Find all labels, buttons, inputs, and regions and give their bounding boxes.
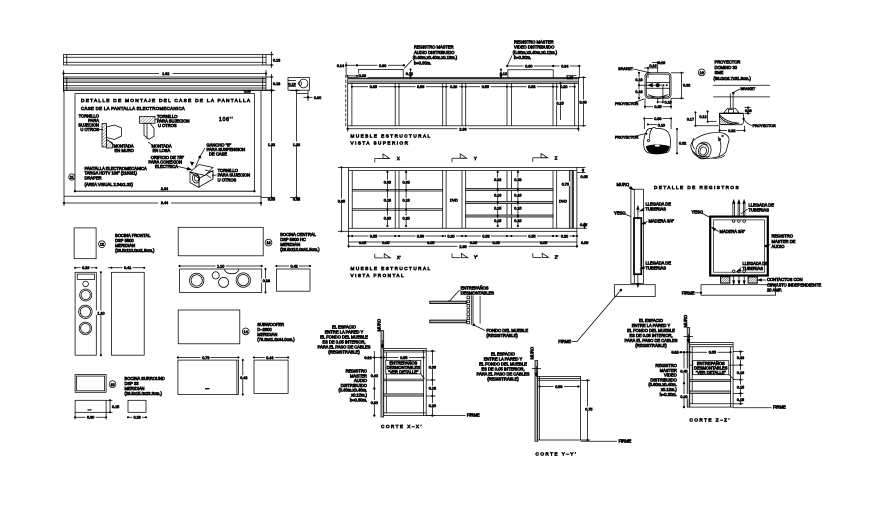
svg-text:0.15: 0.15 — [112, 405, 119, 409]
firme base right — [701, 285, 776, 296]
svg-text:0.55: 0.55 — [482, 85, 489, 89]
svg-text:0.23: 0.23 — [494, 178, 501, 182]
bocina frontal text — [115, 233, 155, 253]
dim 0.79 — [177, 355, 239, 360]
bottom chain 0.05 row — [349, 241, 589, 245]
svg-text:0.17: 0.17 — [687, 118, 694, 122]
svg-text:BRAKET: BRAKET — [741, 87, 757, 91]
projector perspective sketch — [691, 132, 729, 160]
svg-text:0.20: 0.20 — [403, 216, 410, 220]
svg-text:0.15: 0.15 — [494, 206, 501, 210]
madera box in wall — [634, 206, 641, 287]
svg-text:0.32: 0.32 — [683, 84, 690, 88]
svg-text:MASTER DE: MASTER DE — [772, 239, 796, 244]
svg-text:AUDIO DISTRIBUIDO: AUDIO DISTRIBUIDO — [414, 50, 455, 55]
label firme right — [682, 290, 702, 295]
svg-text:0.10: 0.10 — [658, 123, 665, 127]
svg-text:(REGISTRABLE): (REGISTRABLE) — [487, 377, 519, 382]
muro wall strip — [631, 189, 644, 283]
SECTION I : corte Y-Y' — [477, 347, 632, 457]
svg-text:X: X — [397, 156, 400, 161]
svg-text:h=0.30m.: h=0.30m. — [414, 60, 431, 65]
svg-text:h=0.30m.: h=0.30m. — [514, 55, 531, 60]
svg-text:0.58: 0.58 — [528, 85, 535, 89]
svg-text:0.23: 0.23 — [737, 356, 744, 360]
svg-text:FIRME: FIRME — [773, 405, 786, 410]
ceiling line 1 — [713, 84, 770, 86]
bocina central front view — [180, 269, 262, 292]
svg-text:0.15: 0.15 — [737, 385, 744, 389]
svg-text:106’’: 106’’ — [219, 117, 233, 123]
top dim 0.60 / 0.34 right — [500, 64, 580, 80]
svg-text:0.05: 0.05 — [540, 241, 547, 245]
svg-text:0.56: 0.56 — [555, 385, 562, 389]
subwoofer text — [257, 322, 295, 342]
SECTION F : speakers — [74, 227, 320, 419]
divider left wall — [351, 83, 353, 125]
dim 0.85 left — [337, 167, 349, 232]
label orificio — [148, 155, 191, 170]
top dim 0.14 / 0.60 left — [337, 62, 413, 78]
dim 1.32 right — [290, 90, 302, 202]
svg-text:0.44: 0.44 — [266, 356, 273, 360]
label yeso right — [692, 210, 711, 218]
circle 16 — [698, 69, 705, 76]
svg-text:MURO: MURO — [617, 182, 630, 187]
svg-text:0.79: 0.79 — [202, 356, 209, 360]
svg-text:0.18: 0.18 — [429, 387, 436, 391]
divider 5 — [553, 83, 557, 125]
svg-text:0.18: 0.18 — [403, 199, 410, 203]
svg-text:0.33: 0.33 — [403, 181, 410, 185]
svg-text:0.05: 0.05 — [581, 175, 588, 179]
svg-text:0.75: 0.75 — [585, 407, 592, 411]
label gancho S — [195, 143, 245, 168]
svg-text:MUEBLE ESTRUCTURAL: MUEBLE ESTRUCTURAL — [351, 266, 432, 271]
cabinet section Y — [538, 376, 581, 440]
svg-text:EN LOSA: EN LOSA — [153, 148, 171, 153]
svg-text:0.15: 0.15 — [514, 206, 521, 210]
bocina central top rect — [178, 227, 263, 256]
divider 3 — [462, 83, 466, 125]
svg-text:1.10: 1.10 — [97, 311, 104, 315]
dashed wall line — [345, 75, 347, 128]
projector top view — [645, 73, 671, 99]
bocina surround text — [125, 376, 165, 396]
label pantalla text — [85, 166, 147, 187]
svg-text:MURO: MURO — [530, 347, 535, 360]
section flag Y' — [452, 254, 478, 260]
top tick Y — [532, 366, 541, 376]
left chain X — [369, 358, 379, 417]
svg-text:“VER DETALLE”: “VER DETALLE” — [696, 370, 727, 375]
SECTION A : screen case detail — [63, 52, 321, 207]
svg-text:0.05: 0.05 — [427, 241, 434, 245]
firme base left — [615, 285, 656, 297]
shelf bar 2 — [430, 320, 467, 323]
svg-text:MADERA 3/4”: MADERA 3/4” — [649, 219, 675, 224]
svg-text:U OTROS: U OTROS — [218, 177, 237, 182]
svg-text:0.23: 0.23 — [514, 178, 521, 182]
shelf bay4-5 2 — [466, 202, 553, 204]
note text X — [318, 325, 371, 355]
muro wall Z — [687, 328, 690, 408]
section flag Z — [533, 153, 558, 161]
section flag Z' — [533, 253, 559, 259]
SECTION G : corte X-X' — [318, 319, 480, 429]
muro wall X — [381, 331, 384, 417]
svg-text:(36.0x16.7x31.8cm.): (36.0x16.7x31.8cm.) — [714, 76, 752, 81]
svg-text:BRAKET: BRAKET — [618, 67, 634, 71]
contact boxes — [721, 277, 758, 283]
svg-text:REGISTRO MASTER: REGISTRO MASTER — [414, 45, 454, 50]
label llegada bottom right — [737, 261, 768, 272]
svg-text:CORTE Y–Y’: CORTE Y–Y’ — [536, 452, 578, 457]
shelf X 1 — [384, 379, 424, 381]
dim chain bay1 — [383, 171, 393, 226]
svg-text:X’: X’ — [397, 255, 401, 260]
shelf Z 2 — [690, 380, 731, 382]
svg-text:PROYECTOR: PROYECTOR — [715, 60, 741, 65]
dim 1.10 central — [179, 264, 262, 269]
bracket top view with circle — [288, 78, 310, 91]
section flag Y — [452, 154, 477, 162]
svg-text:0.26: 0.26 — [82, 266, 89, 270]
svg-text:0.35: 0.35 — [654, 105, 661, 109]
label contactos — [758, 277, 821, 293]
svg-text:AUDIO: AUDIO — [772, 244, 785, 249]
svg-text:16: 16 — [700, 71, 704, 75]
svg-text:0.85: 0.85 — [338, 199, 345, 203]
hook 3d case sketch — [190, 162, 213, 188]
fondo boards — [471, 295, 480, 325]
svg-text:(0.60m.x0.40m.x0.12m.): (0.60m.x0.40m.x0.12m.) — [513, 50, 558, 55]
dim 1.62 — [63, 70, 267, 92]
svg-text:13: 13 — [266, 241, 270, 245]
label tornillo 1 — [78, 114, 99, 133]
section flag X' — [375, 254, 401, 260]
svg-text:DETALLE DE MONTAJE DEL CASE DE: DETALLE DE MONTAJE DEL CASE DE LA PANTAL… — [81, 98, 251, 104]
dim 0.56 Y — [539, 384, 580, 389]
svg-text:FIRME: FIRME — [467, 413, 480, 418]
svg-text:TUBERIAS: TUBERIAS — [646, 206, 667, 211]
registro master audio note — [404, 45, 458, 69]
svg-text:EN MURO: EN MURO — [115, 148, 134, 153]
svg-text:0.42: 0.42 — [240, 376, 247, 380]
dim 0.12 Z — [671, 351, 688, 355]
svg-text:0.56: 0.56 — [417, 235, 424, 239]
svg-text:DETALLE DE REGISTROS: DETALLE DE REGISTROS — [654, 185, 740, 190]
svg-text:YESO: YESO — [614, 211, 625, 216]
label proyector side — [743, 118, 776, 128]
shelf Z 1 line — [690, 364, 733, 366]
dim 0.42 sub — [239, 359, 249, 395]
svg-text:CORTE X–X’: CORTE X–X’ — [381, 424, 423, 429]
dim 1.32 left — [261, 90, 277, 202]
svg-text:FIRME: FIRME — [682, 290, 695, 295]
right chain X — [426, 350, 437, 416]
label tornillo 3 — [212, 168, 250, 183]
cabinet top-view body — [348, 77, 579, 125]
svg-text:ELECTRICA: ELECTRICA — [155, 164, 178, 169]
muro wall Y — [535, 361, 538, 442]
svg-text:0.20: 0.20 — [560, 85, 567, 89]
svg-text:0.38: 0.38 — [293, 197, 300, 201]
svg-text:0.13: 0.13 — [273, 59, 280, 63]
registro master video text Z — [648, 363, 677, 397]
svg-text:0.42: 0.42 — [291, 264, 298, 268]
svg-text:U OTROS: U OTROS — [80, 127, 99, 132]
interior dim row — [351, 84, 575, 89]
dim 0.16+ top — [644, 61, 665, 78]
svg-text:0.16: 0.16 — [658, 61, 665, 65]
SECTION C : mueble estructural vista frontal — [337, 153, 589, 278]
title vista frontal — [351, 266, 432, 278]
svg-text:h=0.30m.: h=0.30m. — [350, 397, 367, 402]
svg-text:0.60: 0.60 — [580, 101, 587, 105]
svg-text:0.20: 0.20 — [450, 85, 457, 89]
dim 1.10 — [96, 272, 106, 356]
label proyector top view — [615, 99, 644, 106]
bocina central side view — [276, 264, 311, 292]
svg-text:0.05: 0.05 — [244, 89, 251, 93]
circle 15 — [109, 381, 116, 388]
svg-text:0.34: 0.34 — [561, 65, 568, 69]
shelf Z 3 — [690, 391, 731, 393]
svg-text:0.32: 0.32 — [679, 142, 686, 146]
svg-text:CASE DE LA PANTALLA ELECTROMEC: CASE DE LA PANTALLA ELECTROMECANICA — [81, 106, 185, 111]
svg-text:0.16: 0.16 — [494, 193, 501, 197]
svg-text:MURO: MURO — [683, 315, 688, 328]
svg-text:0.60: 0.60 — [379, 64, 386, 68]
svg-text:0.05: 0.05 — [567, 76, 574, 80]
svg-text:2.96: 2.96 — [459, 127, 466, 131]
svg-text:0.55: 0.55 — [709, 351, 716, 355]
shelf X 2 — [384, 394, 424, 396]
svg-text:SME: SME — [715, 70, 724, 75]
svg-text:0.30: 0.30 — [87, 416, 94, 420]
label proyector domino — [714, 60, 752, 82]
svg-text:0.55: 0.55 — [528, 235, 535, 239]
svg-text:(REGISTRABLE): (REGISTRABLE) — [486, 333, 518, 338]
svg-text:1.32: 1.32 — [293, 143, 300, 147]
svg-text:DE CASE: DE CASE — [209, 152, 227, 157]
svg-text:0.75: 0.75 — [562, 182, 569, 186]
section flag X — [375, 154, 400, 162]
svg-text:“VER DETALLE”: “VER DETALLE” — [388, 369, 419, 374]
svg-text:0.16: 0.16 — [514, 193, 521, 197]
svg-text:DVD: DVD — [450, 199, 458, 203]
svg-text:(REGISTRABLE): (REGISTRABLE) — [328, 350, 360, 355]
backboard grey strip right bay — [569, 171, 572, 229]
leader 0.00 — [296, 90, 321, 101]
svg-text:0.16: 0.16 — [289, 83, 296, 87]
label proyector front — [615, 133, 647, 139]
bocina central text — [280, 232, 320, 252]
svg-text:PROYECTOR: PROYECTOR — [753, 124, 777, 128]
svg-text:0.06: 0.06 — [359, 74, 366, 78]
svg-text:0.30: 0.30 — [680, 395, 687, 399]
svg-text:1.10: 1.10 — [217, 264, 224, 268]
circle 11 — [69, 174, 75, 180]
svg-text:0.32: 0.32 — [728, 129, 735, 133]
firme line Z — [733, 405, 786, 410]
circle 12 — [99, 241, 106, 248]
bar 2 (screen case) — [64, 77, 267, 90]
front divider 3 — [462, 171, 466, 229]
side view bracket stem — [730, 92, 734, 108]
svg-text:FIRME: FIRME — [619, 438, 632, 443]
label tornillo 2 — [155, 114, 189, 128]
label madera 3/4 left — [642, 219, 675, 225]
bottom dim 2.96 — [347, 126, 579, 132]
entrepanos label — [461, 286, 495, 296]
svg-text:U OTROS: U OTROS — [158, 123, 177, 128]
wall hatch detail 1 (montada en muro) — [99, 124, 122, 149]
svg-text:1.62: 1.62 — [162, 72, 169, 76]
dims 0.10 / 0.35 bottom — [644, 85, 671, 109]
detail box inner — [75, 94, 254, 192]
leader — [448, 291, 461, 303]
inner dim 0.15 — [556, 83, 566, 120]
divider right wall — [574, 83, 576, 125]
dim 0.30 — [74, 412, 106, 419]
svg-text:0.33: 0.33 — [429, 365, 436, 369]
svg-text:DVD: DVD — [559, 199, 567, 203]
svg-text:0.05: 0.05 — [493, 241, 500, 245]
dim 0.05 bottom right — [577, 223, 587, 229]
title vista superior — [351, 134, 432, 146]
losa hatch detail 2 (montada en losa) — [140, 117, 156, 140]
shelf bay4-5 1 — [466, 189, 553, 191]
svg-text:0.15: 0.15 — [514, 219, 521, 223]
svg-text:2.44: 2.44 — [161, 201, 168, 205]
dims side view — [687, 107, 752, 133]
arrow muro Z — [684, 334, 694, 343]
svg-text:0.18: 0.18 — [635, 78, 642, 82]
svg-text:0.18: 0.18 — [384, 199, 391, 203]
bocina surround top rect — [75, 375, 106, 393]
dims 0.18/0.18 left — [635, 72, 649, 99]
label registro master de audio — [765, 234, 796, 250]
front divider 4 — [507, 171, 511, 229]
dim 0.15 — [106, 400, 119, 413]
svg-text:0.15: 0.15 — [494, 219, 501, 223]
arrow muro top X — [381, 340, 383, 348]
svg-text:MUEBLE ESTRUCTURAL: MUEBLE ESTRUCTURAL — [351, 134, 432, 139]
svg-text:0.40: 0.40 — [680, 369, 687, 373]
label braket top — [618, 67, 651, 73]
front divider 1 — [395, 171, 399, 229]
svg-text:14: 14 — [244, 330, 248, 334]
svg-text:VIDEO DISTRIBUIDO: VIDEO DISTRIBUIDO — [514, 45, 554, 50]
svg-text:Y: Y — [474, 156, 477, 161]
left chain Z — [679, 351, 689, 408]
dim 0.05 top right — [577, 167, 588, 178]
svg-text:(AREA VISUAL 2.34x1.32): (AREA VISUAL 2.34x1.32) — [85, 182, 134, 187]
firme line Y — [581, 438, 632, 443]
svg-text:0.55: 0.55 — [400, 356, 407, 360]
shelf bay4-5 3 — [466, 215, 553, 217]
svg-text:0.16: 0.16 — [649, 64, 656, 68]
dim chain bay4 — [493, 171, 503, 226]
front divider 5 — [553, 171, 557, 229]
svg-text:0.33: 0.33 — [384, 181, 391, 185]
bar top (case rail 1) — [64, 55, 267, 66]
dim 2.44 — [63, 196, 262, 206]
svg-text:(26.5x15.0x23.3cm.): (26.5x15.0x23.3cm.) — [125, 391, 163, 396]
divider 4 — [507, 83, 511, 125]
svg-text:1.32: 1.32 — [268, 143, 275, 147]
svg-text:0.20: 0.20 — [561, 235, 568, 239]
SECTION B : mueble estructural vista superior — [337, 39, 589, 145]
detail box outer — [64, 91, 261, 197]
label montada en losa — [148, 142, 172, 153]
label llegada de tuberias top — [640, 202, 671, 212]
note text Y — [477, 352, 530, 382]
svg-text:0.05: 0.05 — [382, 241, 389, 245]
dim 0.12 X — [364, 351, 381, 360]
svg-text:0.35: 0.35 — [370, 85, 377, 89]
svg-text:0.36: 0.36 — [654, 117, 661, 121]
dim 0.75 backboard — [561, 182, 571, 187]
svg-text:DESMONTABLES: DESMONTABLES — [461, 290, 495, 295]
svg-text:0.28: 0.28 — [263, 279, 270, 283]
shelf bay1-2 lower — [352, 209, 443, 211]
circle 14 — [242, 328, 249, 335]
dim 0.32 right — [671, 72, 690, 99]
dim chain bay5 — [513, 171, 523, 226]
svg-text:TUBERIAS: TUBERIAS — [646, 265, 667, 270]
svg-text:(28.5x110.0x41.5cm.): (28.5x110.0x41.5cm.) — [115, 248, 155, 253]
label braket side — [734, 87, 756, 92]
label muro — [617, 182, 634, 190]
svg-text:TUBERIAS: TUBERIAS — [749, 207, 770, 212]
svg-text:0.05: 0.05 — [470, 241, 477, 245]
entrepanos note Z — [693, 361, 734, 380]
dim 0.75 Y — [581, 380, 594, 441]
svg-text:0.55: 0.55 — [370, 235, 377, 239]
svg-text:0.06: 0.06 — [745, 109, 752, 113]
dim 0.55 Z — [689, 350, 731, 355]
svg-text:h=0.30m.: h=0.30m. — [660, 392, 677, 397]
surround side view — [127, 400, 146, 419]
front divider 2 — [443, 171, 446, 229]
svg-text:LLEGADA DE: LLEGADA DE — [743, 261, 769, 266]
svg-text:0.20: 0.20 — [384, 216, 391, 220]
svg-text:(28.5x110.0x41.5cm.): (28.5x110.0x41.5cm.) — [280, 247, 320, 252]
label llegada de tuberias bottom — [641, 261, 672, 271]
SECTION D : projector details — [615, 60, 776, 161]
svg-text:Y’: Y’ — [474, 255, 478, 260]
bocina frontal side view — [108, 266, 145, 356]
dim 0.18 — [266, 74, 280, 93]
svg-text:0.05: 0.05 — [581, 241, 588, 245]
svg-text:0.14: 0.14 — [337, 64, 344, 68]
svg-text:0.16: 0.16 — [737, 371, 744, 375]
svg-text:0.41: 0.41 — [124, 266, 131, 270]
svg-text:REGISTRO MASTER: REGISTRO MASTER — [514, 39, 554, 44]
svg-text:DOMINO 30: DOMINO 30 — [715, 65, 738, 70]
subwoofer side view — [253, 355, 288, 393]
svg-text:2.34: 2.34 — [161, 187, 168, 191]
svg-text:YESO: YESO — [692, 210, 703, 215]
svg-text:CORTE Z–Z’: CORTE Z–Z’ — [690, 418, 731, 423]
svg-text:0.18: 0.18 — [635, 90, 642, 94]
dim 2.34 — [74, 187, 255, 192]
svg-text:REGISTRO: REGISTRO — [772, 234, 793, 239]
svg-text:0.40: 0.40 — [371, 374, 378, 378]
